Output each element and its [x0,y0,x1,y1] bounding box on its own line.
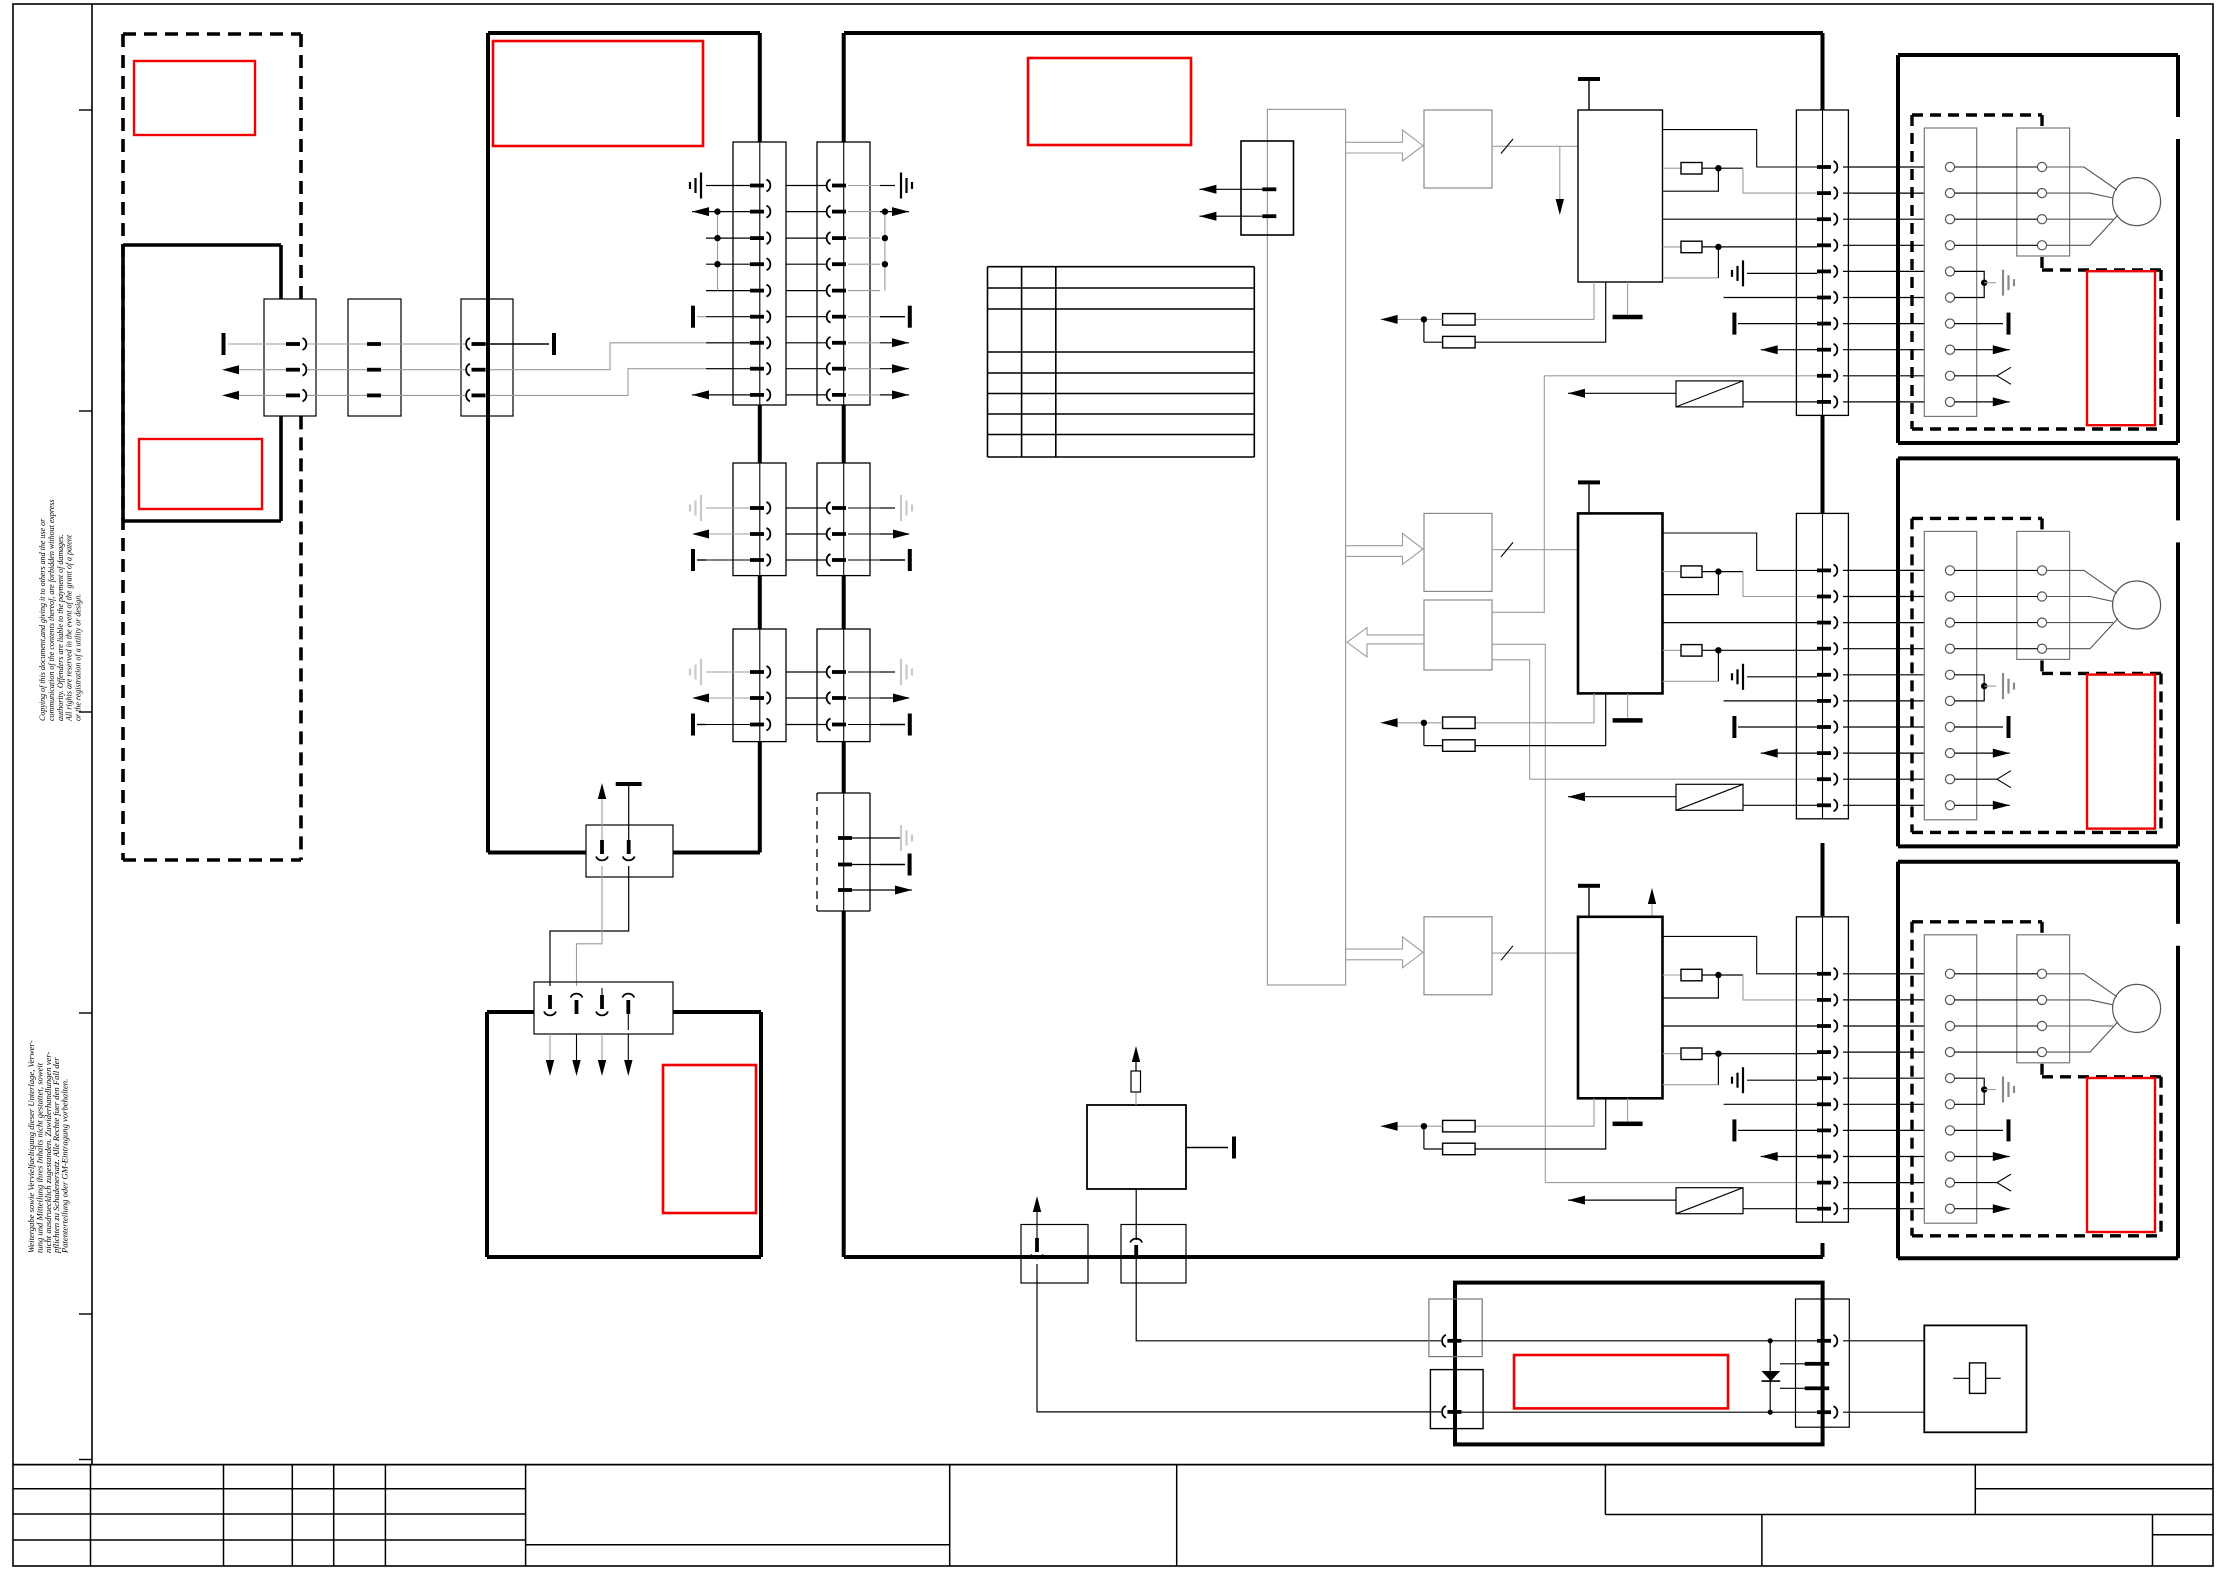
svg-text:All rights are reserved in the: All rights are reserved in the event of … [65,534,74,722]
pin 3 [600,995,604,1009]
wire jog to X10 row7 [485,343,733,370]
label placeholder red box 6 [1514,1355,1728,1408]
terminator above -T3 [1588,888,1590,917]
wire row2 [1663,1025,1817,1027]
grey ground left row1 [700,495,702,521]
arrow row3 [880,889,912,891]
resistor R5 [1663,974,1681,976]
pin 4 [622,994,634,998]
frame tick 4 [79,1012,92,1014]
encoder distribution taps from -A2b [1492,376,1544,613]
pin -K1 [1035,1238,1039,1252]
terminator row6 [1732,1119,1736,1141]
connector -X71 [1796,110,1848,415]
fuse -F1 [1135,1092,1137,1105]
ground right row1 [880,185,895,187]
terminator row6 right [880,316,905,318]
pass-through [759,629,761,742]
connector -X3 [461,299,513,416]
pins -X72 [1817,564,1924,811]
four signal arrows down [549,1034,551,1062]
pin -K2 [1130,1239,1142,1243]
svg-text:Copying of this document,and g: Copying of this document,and giving it t… [38,518,47,721]
terminator row7 [1955,726,2003,728]
pins -X5 [1199,185,1276,221]
resistor R3 [1663,571,1681,573]
motor M1 [2113,178,2161,226]
gnd stub below -T1 [1627,282,1629,314]
motor unit 2 frame [1898,458,2178,846]
pins -X71 [1817,161,1924,408]
arrow row7 [1761,752,1817,754]
pin rows [706,502,880,566]
right bus link rows2-5 [884,212,886,291]
terminator row6 left [691,306,695,328]
power unit -T2 [1578,513,1663,693]
power unit -T1 [1578,110,1663,282]
wire row0 [1663,936,1817,973]
wire jog to X10 row8 [485,369,733,396]
grey ground right row1 [880,507,895,509]
isolator row9 [1568,392,1676,394]
wire row5 stub [1724,700,1817,702]
wire row4 ground [1663,1084,1719,1086]
arrow row8 [1955,349,2010,351]
connector -P1 [1429,1299,1482,1357]
wire row8 long [1530,778,1817,780]
pins (circles) -X81 [1945,162,1954,406]
pins of -X2 [367,342,381,397]
serial line with slash [1492,145,1578,147]
connector -X42 right [817,629,870,742]
connector -X20 [817,142,870,405]
motor unit 1 frame [1898,55,2178,443]
motor connector -X91 [2017,128,2070,256]
wire -H1 terminator [1186,1147,1228,1149]
wire to terminator [485,343,549,345]
signal table [988,267,1255,457]
frame tick 5 [79,1313,92,1315]
terminator above -T2 [1588,484,1590,513]
backplane bus [1267,109,1345,985]
motor M3 [2113,984,2161,1032]
motor M2 [2113,581,2161,629]
gnd stub below -T2 [1627,693,1629,717]
connector -X61 [534,982,673,1034]
wire row2 [1663,218,1817,220]
svg-text:communication of the contents: communication of the contents thereof, a… [47,499,56,721]
sense resistor pair below -T1 [1475,282,1594,319]
wire row5 stub [1724,1103,1817,1105]
arrow row8 [1955,752,2010,754]
pin 1 [600,840,604,854]
cabinet frame bottom-left [487,1012,761,1257]
brake resistor cabinet [1455,1283,1823,1445]
interface box -A2 [1424,513,1492,591]
frame column line [91,4,93,1465]
arrow up -K1 [1036,1210,1038,1238]
brake resistor box [1924,1325,2026,1432]
terminator left row3 [691,714,695,736]
coupling box -K2 [1121,1225,1186,1284]
thermal bridge rows 5-6 [1955,675,1985,701]
pin 1 [548,995,552,1009]
label placeholder red box M3 [2087,1078,2155,1232]
pins (circles) -X92 [1955,566,2047,654]
svg-text:authority. Offenders are liabl: authority. Offenders are liable to the p… [56,534,65,721]
terminator above pin2 [628,784,630,840]
label placeholder red box 3 [493,41,703,146]
label placeholder red box M2 [2087,675,2155,829]
wire row1 [1663,168,1719,191]
motor connector -X82 [1924,531,1976,819]
wire row1 [1663,975,1719,998]
motor connector -X81 [1924,128,1976,416]
arrows rows7-8 right [880,342,909,344]
bus arrow module 3 [1346,937,1423,968]
crossover wires to -X61 [550,866,629,986]
connector -X60 [586,825,673,877]
pins -X50 [838,836,880,892]
feedback arrow left [1347,628,1424,657]
resistor R1 [1663,167,1681,169]
interface box -A3 [1424,917,1492,995]
terminator above -T1 [1588,81,1590,110]
pins -X73 [1817,968,1924,1215]
diode [1769,1341,1771,1412]
motor connector -X92 [2017,531,2070,659]
connector -X41 right [817,463,870,576]
ground motor unit 2 [1984,685,1996,687]
terminator row6 [1732,313,1736,335]
arrow row10 [1955,401,2010,403]
wire row4 ground [1663,277,1719,279]
svg-text:Patenterteilung oder GM-Eintra: Patenterteilung oder GM-Eintragung vorbe… [60,1079,70,1254]
pins -P3 [1817,1339,1831,1343]
wire row2 [1663,622,1817,624]
ground row1 [880,837,901,839]
arrow up from pin1 [601,793,603,840]
control box -H1 [1087,1105,1186,1189]
copyright notice (English) [38,499,83,722]
ground motor unit 1 [1984,282,1996,284]
pin 2 [627,840,631,854]
interface box -A2b [1424,600,1492,670]
pins of -X3 [466,338,485,401]
wires rows [1461,1340,1817,1342]
wire row0 [1663,130,1817,167]
pin rows [706,666,880,731]
pass-through [759,463,761,576]
svg-text:or the registration of a utili: or the registration of a utility or desi… [74,594,83,721]
ground motor unit 3 [1984,1089,1996,1091]
arrow right row2 [880,697,909,699]
sense resistor pair below -T2 [1475,693,1594,722]
resistor R4 [1663,649,1681,651]
power unit -T3 [1578,917,1663,1099]
frame tick 2 [79,410,92,412]
wires between connectors [228,344,466,395]
bidirectional arrows row9 [692,394,706,396]
terminator row7 [1955,323,2003,325]
terminator row2 [880,864,905,866]
drive cabinet frame [844,33,1823,1257]
connector -X5 [1241,141,1294,235]
connector -X10 [733,142,786,405]
terminator right row3 [880,724,905,726]
pins (circles) -X82 [1945,566,1954,810]
wire -K1 to -P2 [1037,1264,1441,1412]
frame tick 1 [79,109,92,111]
connector -P2 [1430,1370,1483,1429]
sense resistor pair below -T3 [1475,1098,1594,1126]
wire -K2 to -H1 [1135,1189,1137,1240]
pin 2 [571,994,583,998]
signal arrow [222,365,239,374]
arrow left row2 [692,530,709,539]
motor unit 3 dashed boundary [1912,922,2161,1236]
motor unit 1 dashed boundary [1912,115,2161,429]
bus arrow module 1 [1346,130,1423,161]
ground left row1 [700,173,702,199]
wire row4 ground [1663,680,1719,682]
arrow row7 [1761,349,1817,351]
frame tick 3 [79,711,92,713]
terminator left row3 [691,549,695,571]
connector -X73 [1796,917,1848,1222]
chevron row9 [1955,1182,1997,1184]
isolator row9 [1568,796,1676,798]
connector -X50 [817,793,870,911]
bus bidirectional arrows row2 [692,211,706,213]
motor unit 2 dashed boundary [1912,518,2161,832]
arrow right row2 [880,533,909,535]
arrow left row2 [692,694,709,703]
connector -X31 left [733,463,786,576]
coupling box -K1 [1021,1225,1088,1284]
wire row5 stub [1724,297,1817,299]
connector -X1 [264,299,316,416]
bus arrow module 2 [1346,533,1423,564]
vent arrow up [1651,902,1653,916]
interface box -A1 [1424,110,1492,188]
pass-through lines [759,142,761,405]
connector -X72 [1796,513,1848,818]
resistor R2 [1663,246,1681,248]
gnd stub below -T3 [1627,1098,1629,1121]
wire -K2 to -P1 [1136,1259,1441,1341]
arrow row10 [1955,804,2010,806]
chevron row9 [1955,778,1997,780]
resistor element [1970,1363,1986,1394]
chevron row9 [1955,375,1997,377]
pin rows pair 1 [706,180,880,401]
converter cabinet frame [488,33,760,853]
serial line with slash [1492,549,1578,551]
pins of -X1 [286,338,306,401]
connector -X2 (terminal strip) [348,299,401,416]
grey ground right row1 [880,671,895,673]
branch arrow down [1559,146,1561,200]
title block [13,1465,2213,1566]
isolator row9 [1568,1199,1676,1201]
motor unit 3 frame [1898,862,2178,1259]
pins (circles) -X91 [1955,162,2047,250]
pins (circles) -X93 [1955,969,2047,1056]
left bus link rows2-5 [717,212,719,291]
enclosure (dashed) [123,34,301,860]
wire row1 [1663,572,1719,595]
connector -P3 [1796,1299,1850,1427]
resistor R6 [1663,1053,1681,1055]
thermal bridge rows 5-6 [1955,1078,1985,1104]
label placeholder red box 4 [1028,58,1191,145]
terminator right row3 [880,559,905,561]
arrow row8 [1955,1156,2010,1158]
wire row0 [1663,533,1817,570]
motor connector -X83 [1924,935,1976,1223]
thermal bridge rows 5-6 [1955,271,1985,297]
label placeholder red box 1 [134,61,255,135]
label placeholder red box M1 [2087,271,2155,425]
frame tick 6 [79,1459,92,1461]
terminator row6 [1732,716,1736,738]
label placeholder red box 5 [663,1065,756,1213]
serial line with slash [1492,952,1578,954]
wire row8 long [1544,375,1817,377]
copyright notice (German) [26,1040,70,1254]
arrow row10 [1955,1208,2010,1210]
terminator row7 [1955,1129,2003,1131]
motor connector -X93 [2017,935,2070,1063]
signal arrow [222,391,239,400]
wire row8 long [1545,1182,1817,1184]
connector -X32 left [733,629,786,742]
label placeholder red box 2 [139,439,262,509]
terminator bar [222,333,226,355]
arrow row7 [1761,1156,1817,1158]
grey ground left row1 [700,659,702,685]
control cabinet box [123,245,281,521]
pins (circles) -X83 [1945,969,1954,1213]
